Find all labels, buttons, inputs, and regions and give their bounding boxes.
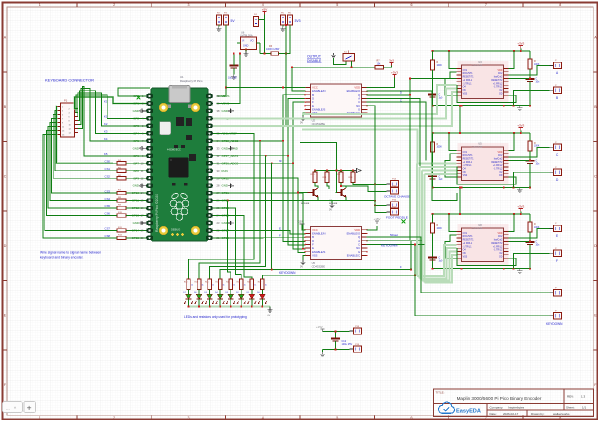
svg-text:VCC: VCC bbox=[312, 228, 318, 232]
junction bbox=[340, 185, 342, 187]
wire U2 VSS down bbox=[303, 113, 306, 116]
svg-text:C: C bbox=[594, 175, 597, 179]
wire U7 out bbox=[367, 240, 422, 242]
wire to ground bbox=[331, 201, 333, 204]
svg-text:GND: GND bbox=[133, 109, 139, 113]
EasyEDA logo bbox=[439, 402, 481, 414]
wire clk feed bbox=[449, 214, 456, 231]
Pico raspberry logo bbox=[170, 192, 189, 220]
ground flag at pico pin 38 bbox=[228, 109, 233, 113]
wire highlighted input U5 bbox=[422, 169, 456, 171]
wire U7 VCC up bbox=[302, 224, 306, 230]
svg-text:ENABLE/O: ENABLE/O bbox=[347, 232, 360, 236]
wire U7 out to F rail bbox=[367, 241, 411, 270]
wire emitter rail bbox=[318, 197, 346, 201]
wire R7 to pico bbox=[126, 192, 146, 194]
svg-text:Inspirebytes: Inspirebytes bbox=[508, 405, 525, 409]
svg-text:1k: 1k bbox=[244, 285, 246, 287]
ground flag at pico pin 28 bbox=[228, 183, 233, 187]
wire VBUS to P3 bbox=[217, 25, 227, 96]
svg-text:Raspberry Pi Pico ©2020: Raspberry Pi Pico ©2020 bbox=[155, 194, 159, 232]
wire long vertical x420 bbox=[367, 98, 420, 243]
wire bbox=[529, 214, 531, 222]
junction bbox=[340, 170, 342, 172]
Pico RP2040 chip bbox=[169, 158, 189, 178]
wire GP0 loop bbox=[118, 88, 150, 96]
junction bbox=[374, 204, 376, 206]
svg-text:D: D bbox=[594, 244, 597, 248]
wire bbox=[261, 290, 263, 295]
svg-text:GP1: GP1 bbox=[133, 102, 139, 106]
power flag +15V bbox=[316, 325, 325, 332]
junction bbox=[461, 268, 463, 270]
junction bbox=[448, 132, 450, 134]
resistor R13 bbox=[187, 279, 191, 290]
svg-text:Ina/Cnt2: Ina/Cnt2 bbox=[494, 76, 503, 79]
connector P15 bbox=[387, 186, 399, 194]
wire KEYDOWN to LED8 bbox=[262, 275, 415, 279]
wire net CS0 bbox=[57, 107, 117, 164]
wire U6 out down bbox=[259, 43, 261, 54]
junction bbox=[503, 187, 505, 189]
svg-text:BC546B: BC546B bbox=[329, 203, 338, 205]
junction switch bbox=[351, 66, 353, 68]
wire flag down bbox=[520, 130, 522, 133]
resistor R4 bbox=[117, 162, 126, 165]
svg-text:2026-02-17: 2026-02-17 bbox=[503, 412, 519, 416]
ground flag at pico pin 3 bbox=[140, 109, 146, 113]
capacitor 1u0 (U3) bbox=[428, 95, 437, 98]
wire net CS3 bbox=[52, 119, 118, 194]
svg-text:8: 8 bbox=[559, 3, 561, 7]
svg-text:Sheet:: Sheet: bbox=[566, 405, 575, 409]
wire bbox=[198, 290, 200, 295]
wire chain 2-3 bbox=[459, 188, 461, 215]
resistor R14 bbox=[197, 279, 201, 290]
svg-text:VBUS: VBUS bbox=[222, 94, 230, 98]
svg-text:5: 5 bbox=[336, 416, 338, 420]
ground at U6 bbox=[243, 52, 248, 57]
junction bbox=[459, 105, 461, 107]
wire U7 out bbox=[367, 243, 425, 245]
wire right column down bbox=[529, 164, 531, 188]
ground 0V (U8) bbox=[517, 269, 522, 274]
wire bbox=[529, 133, 531, 141]
wire fan LED1 bbox=[189, 133, 255, 279]
svg-text:ENABLE/N: ENABLE/N bbox=[312, 89, 325, 93]
junction bbox=[529, 268, 531, 270]
junction bbox=[513, 213, 515, 215]
junction bbox=[302, 248, 304, 250]
wire bbox=[529, 69, 531, 79]
svg-text:E: E bbox=[556, 234, 558, 238]
junction bbox=[432, 105, 434, 107]
ground at C2 bbox=[231, 75, 236, 80]
wire net CS8 bbox=[43, 135, 117, 238]
resistor R6 bbox=[117, 177, 126, 180]
svg-text:1k: 1k bbox=[191, 285, 193, 287]
svg-text:R16: R16 bbox=[216, 282, 219, 284]
wire to out conn 1 bbox=[509, 65, 550, 75]
svg-text:OD: OD bbox=[499, 175, 503, 177]
wire R8 to pico bbox=[126, 200, 146, 202]
wire out conn 2 to rail bbox=[513, 90, 549, 105]
wire K0 highlight bbox=[75, 97, 147, 109]
wire out conn 2 to rail bbox=[513, 253, 549, 268]
ground flag at pico pin 13 bbox=[140, 183, 146, 187]
resistor R 100K (U5) bbox=[431, 142, 435, 152]
IC U3 CD4094 block highlight bbox=[457, 61, 508, 103]
svg-text:B: B bbox=[556, 96, 558, 100]
svg-text:EasyEDA: EasyEDA bbox=[456, 408, 481, 414]
wire fan LED5 bbox=[228, 201, 231, 279]
wire highlighted input U8 bbox=[422, 252, 456, 281]
wire U3 top rail bbox=[433, 50, 531, 52]
wire R12 to pico bbox=[126, 237, 146, 239]
svg-text:G: G bbox=[358, 250, 360, 254]
wire GP26 to U2 bbox=[213, 102, 306, 163]
svg-text:CS0: CS0 bbox=[105, 159, 111, 163]
connector P5 bbox=[281, 15, 286, 25]
wire fan LED6 bbox=[213, 208, 241, 279]
ground at P5 bbox=[280, 27, 285, 32]
wire KEYDOWN long bbox=[367, 244, 550, 315]
wire net K4 bbox=[78, 89, 146, 141]
wire U8 bottom rail bbox=[433, 268, 531, 270]
svg-text:VDD: VDD bbox=[498, 70, 503, 72]
transistor Q1 BC546B (left driver) bbox=[308, 188, 319, 197]
svg-text:GND: GND bbox=[243, 45, 249, 48]
wire left column down bbox=[432, 152, 434, 188]
Pico BOOTSEL button bbox=[160, 122, 171, 135]
connector bottom right bbox=[550, 288, 562, 296]
svg-text:A: A bbox=[358, 97, 360, 101]
svg-text:VI: VI bbox=[242, 40, 245, 43]
wire right column down bbox=[529, 82, 531, 106]
ground 0V emitters bbox=[329, 203, 334, 208]
svg-text:-1 TR/L2: -1 TR/L2 bbox=[493, 169, 503, 171]
svg-text:CK2: CK2 bbox=[498, 236, 503, 238]
svg-text:100R 0.25W: 100R 0.25W bbox=[266, 48, 280, 51]
svg-text:-1 TR/L1: -1 TR/L1 bbox=[463, 83, 473, 85]
svg-text:1: 1 bbox=[39, 3, 41, 7]
resistor R7 10k bbox=[375, 65, 384, 69]
wire bbox=[340, 171, 342, 173]
wire U7 VDD to +15V bbox=[367, 226, 377, 230]
junction bbox=[520, 50, 522, 52]
junction bbox=[335, 349, 337, 351]
switch S1 bbox=[343, 51, 355, 62]
op IC U5 CD4532BE (bottom encoder) bbox=[311, 226, 362, 259]
wire U5 top rail bbox=[433, 132, 531, 134]
wire 0V to connector bbox=[323, 349, 350, 351]
resistor R 100K right (U5) bbox=[528, 141, 532, 151]
resistor R8 bbox=[117, 199, 126, 202]
svg-text:A: A bbox=[358, 239, 360, 243]
svg-text:1.3: 1.3 bbox=[581, 395, 586, 399]
ground 0V (U3) bbox=[517, 106, 522, 111]
power flag +3V3 U8 bbox=[517, 205, 524, 212]
svg-text:+1 FR/L1: +1 FR/L1 bbox=[463, 162, 473, 164]
svg-text:CS1: CS1 bbox=[105, 167, 111, 171]
svg-text:Wire signal name to signal nam: Wire signal name to signal name between bbox=[40, 251, 101, 255]
svg-text:CX1: CX1 bbox=[463, 233, 468, 235]
Pico mounting holes bbox=[159, 103, 168, 112]
wire net K1 bbox=[76, 95, 146, 119]
svg-text:...: ... bbox=[6, 406, 10, 411]
junction bbox=[259, 140, 261, 142]
connector (F) bbox=[550, 248, 562, 256]
svg-text:GP12: GP12 bbox=[132, 206, 140, 210]
LED D0 bbox=[258, 294, 267, 304]
svg-text:VCC: VCC bbox=[312, 86, 318, 90]
wire long vertical x410 bbox=[409, 78, 411, 240]
svg-text:5: 5 bbox=[336, 3, 338, 7]
ground flag at pico pin 23 bbox=[228, 221, 233, 225]
wire 5Dout to connector bbox=[367, 237, 550, 293]
ground 0V at U2 bbox=[300, 116, 305, 121]
junction bbox=[432, 268, 434, 270]
wire R7 to 3v3 bbox=[384, 66, 392, 68]
junction bbox=[461, 187, 463, 189]
wire U6 input stub bbox=[237, 42, 241, 44]
svg-text:CD4094BE: CD4094BE bbox=[471, 228, 482, 230]
connector KEYDOWN bbox=[550, 311, 562, 319]
svg-text:OD: OD bbox=[499, 256, 503, 258]
wire switch to rail bbox=[351, 61, 353, 67]
svg-text:RESET/T1: RESET/T1 bbox=[463, 240, 475, 242]
resistor R 100K (U8) bbox=[431, 223, 435, 233]
junction bbox=[520, 213, 522, 215]
wire net CS5 bbox=[48, 127, 117, 209]
svg-text:R15: R15 bbox=[205, 282, 208, 284]
wire U2 q5 long to foot pedal bbox=[367, 106, 387, 213]
junction bbox=[513, 187, 515, 189]
LED D1 bbox=[247, 294, 256, 304]
svg-text:-1 TR/L2: -1 TR/L2 bbox=[493, 250, 503, 252]
svg-text:1k: 1k bbox=[212, 285, 214, 287]
svg-text:REV:: REV: bbox=[567, 395, 574, 399]
svg-text:K2: K2 bbox=[104, 122, 108, 126]
ground 0V bottom bbox=[320, 352, 325, 357]
net flag 9V at rail bbox=[353, 168, 361, 172]
svg-text:OCTAVE CHANGE: OCTAVE CHANGE bbox=[384, 194, 410, 198]
junction bbox=[503, 268, 505, 270]
resistor R7 bbox=[117, 191, 126, 194]
LED D4 bbox=[216, 294, 225, 304]
svg-text:RESET/T2: RESET/T2 bbox=[491, 162, 503, 164]
svg-text:3V3: 3V3 bbox=[295, 19, 301, 23]
wire bbox=[219, 290, 221, 295]
wire bbox=[529, 232, 531, 242]
junction bbox=[410, 269, 412, 271]
wire bbox=[432, 214, 434, 223]
junction bbox=[227, 200, 229, 202]
capacitor 10n (U5) bbox=[526, 161, 535, 164]
wire feedback loop bbox=[456, 85, 516, 102]
wire R5 to pico bbox=[126, 170, 146, 172]
wire bbox=[322, 350, 324, 353]
wire to out conn 1 bbox=[509, 228, 550, 238]
wire GP26 bus to U7 bbox=[293, 163, 306, 249]
svg-text:Ina/Cnt2: Ina/Cnt2 bbox=[494, 158, 503, 161]
capacitor 1u0 (U8) bbox=[428, 258, 437, 261]
svg-text:+: + bbox=[27, 403, 32, 413]
junction bbox=[314, 170, 316, 172]
wire LED cathode bbox=[261, 299, 263, 307]
svg-text:VDD: VDD bbox=[498, 233, 503, 235]
wire P4 to +5V flag bbox=[259, 15, 265, 20]
connector (D) bbox=[550, 167, 562, 175]
junction rail left bbox=[291, 66, 293, 68]
wire flag down bbox=[520, 49, 522, 52]
resistor R3 100R bbox=[271, 52, 279, 56]
connector P3 bbox=[224, 15, 229, 25]
wire highlighted input U8 bbox=[425, 255, 457, 283]
Pico PCB board bbox=[151, 88, 208, 241]
junction bbox=[326, 170, 328, 172]
Pico DEBUG pads bbox=[171, 228, 184, 236]
junction bbox=[432, 187, 434, 189]
LED D3 bbox=[226, 294, 235, 304]
wire RC tie bbox=[509, 159, 530, 161]
IC U3 CD4094BE bbox=[461, 65, 503, 99]
svg-text:GP9: GP9 bbox=[133, 176, 139, 180]
svg-text:GND: GND bbox=[222, 221, 228, 225]
svg-text:GP6: GP6 bbox=[133, 154, 139, 158]
svg-text:+15V: +15V bbox=[297, 221, 303, 224]
svg-text:GP2: GP2 bbox=[133, 117, 139, 121]
svg-text:CX1: CX1 bbox=[463, 152, 468, 154]
svg-text:OD: OD bbox=[499, 93, 503, 95]
wire bbox=[352, 171, 354, 173]
resistor R10 bbox=[117, 214, 126, 217]
wire to octave connector 2 bbox=[341, 186, 387, 191]
wire highlighted band 1 bbox=[302, 85, 456, 114]
capacitor C2 10u bbox=[229, 66, 238, 69]
svg-text:GP3: GP3 bbox=[133, 124, 139, 128]
IC U8 CD4094 block highlight bbox=[457, 224, 508, 266]
connector P2 bbox=[217, 15, 222, 25]
svg-text:C: C bbox=[4, 175, 7, 179]
junction U6 gnd pin bbox=[245, 49, 247, 51]
svg-text:GP10: GP10 bbox=[132, 191, 140, 195]
svg-text:CX1: CX1 bbox=[463, 70, 468, 72]
svg-text:Ina/Cnt2: Ina/Cnt2 bbox=[494, 239, 503, 242]
svg-text:+3V3: +3V3 bbox=[391, 71, 398, 75]
wire LED cathode bbox=[198, 299, 200, 307]
wire R9 to pico bbox=[126, 207, 146, 209]
svg-text:+15V: +15V bbox=[373, 217, 380, 221]
svg-text:0V: 0V bbox=[300, 266, 303, 269]
IC U8 CD4094BE bbox=[461, 228, 503, 262]
svg-text:E: E bbox=[279, 226, 281, 230]
svg-text:2: 2 bbox=[113, 3, 115, 7]
wire bbox=[314, 171, 316, 173]
svg-text:Raspberry Pi Pico: Raspberry Pi Pico bbox=[180, 79, 203, 83]
wire to octave connector 1 bbox=[353, 183, 387, 185]
ground flag at pico pin 8 bbox=[140, 146, 146, 150]
junction bbox=[409, 78, 411, 80]
svg-text:+3V3: +3V3 bbox=[517, 205, 524, 209]
junction on rail bbox=[336, 170, 338, 172]
power flag +5V bbox=[262, 8, 267, 15]
svg-text:1k: 1k bbox=[254, 285, 256, 287]
wire bbox=[432, 51, 434, 60]
connector P1 bbox=[57, 99, 78, 137]
junction bbox=[529, 241, 531, 243]
junction VSYS on rail bbox=[239, 53, 241, 55]
wire bbox=[188, 290, 190, 295]
wire U2 q2 to U3 bbox=[367, 78, 457, 94]
svg-text:CD4532BE: CD4532BE bbox=[312, 264, 326, 268]
junction bbox=[529, 187, 531, 189]
LED D7 bbox=[184, 294, 193, 304]
svg-text:VSS: VSS bbox=[463, 175, 468, 177]
svg-text:LEDs and resistors only used f: LEDs and resistors only used for prototy… bbox=[184, 315, 247, 319]
power flag 3v3 small bbox=[389, 59, 394, 66]
svg-text:GP4: GP4 bbox=[133, 131, 139, 135]
junction bbox=[287, 155, 289, 157]
connector (E) bbox=[550, 223, 562, 231]
capacitor 10n (U3) bbox=[526, 79, 535, 82]
svg-text:+3V3: +3V3 bbox=[517, 42, 524, 46]
wire fan LED4 bbox=[220, 163, 271, 279]
wire net CS2 bbox=[53, 115, 117, 179]
svg-text:+1 FR/L2: +1 FR/L2 bbox=[493, 246, 503, 248]
wire LED rail highlight bbox=[189, 306, 271, 308]
svg-text:ROC/ST1: ROC/ST1 bbox=[463, 155, 474, 157]
wire fan LED2 bbox=[199, 141, 260, 279]
junction bbox=[432, 132, 434, 134]
svg-text:VSS: VSS bbox=[463, 256, 468, 258]
wire cap lead 2 bbox=[335, 341, 337, 349]
LED D6 bbox=[194, 294, 203, 304]
title block bbox=[434, 389, 594, 417]
resistor R19 bbox=[250, 279, 254, 290]
wire LED cathode bbox=[209, 299, 211, 307]
svg-text:+15V: +15V bbox=[316, 325, 323, 329]
wire left column down bbox=[432, 233, 434, 269]
wire bbox=[529, 51, 531, 59]
wire net CS7 bbox=[45, 135, 117, 231]
junction VBUS/VCC bbox=[225, 87, 227, 89]
wire R10 to pico bbox=[126, 215, 146, 217]
svg-text:VDD: VDD bbox=[354, 228, 360, 232]
svg-text:R14: R14 bbox=[194, 282, 197, 284]
wire U6 to ground bbox=[245, 50, 247, 52]
resistor R15 bbox=[208, 279, 212, 290]
junction bbox=[461, 105, 463, 107]
svg-text:4: 4 bbox=[262, 416, 264, 420]
wire net K2 bbox=[78, 93, 146, 126]
wire LED cathode bbox=[251, 299, 253, 307]
no-connect X at GP0 bbox=[137, 96, 141, 100]
wire cap top lead bbox=[233, 54, 235, 66]
svg-text:+1 FR/L1: +1 FR/L1 bbox=[463, 243, 473, 245]
svg-text:ENABLE/O: ENABLE/O bbox=[347, 89, 360, 93]
connector P6 bbox=[288, 15, 293, 25]
junction bbox=[513, 268, 515, 270]
svg-text:10u 25V: 10u 25V bbox=[228, 77, 237, 80]
svg-text:VDD: VDD bbox=[354, 86, 360, 90]
junction bbox=[529, 105, 531, 107]
wire chain 1-2 bbox=[459, 106, 461, 133]
svg-text:ENABLE/N: ENABLE/N bbox=[312, 232, 325, 236]
wire to out conn 1 bbox=[509, 147, 550, 157]
capacitor 1u0 (U5) bbox=[428, 176, 437, 179]
junction bbox=[459, 132, 461, 134]
